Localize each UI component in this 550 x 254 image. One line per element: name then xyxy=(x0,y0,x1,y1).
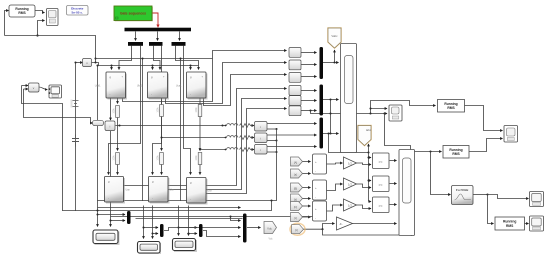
gate bar 3 xyxy=(172,42,186,46)
node j3 xyxy=(94,61,96,63)
svg-text:Iabc: Iabc xyxy=(366,128,372,132)
wire chain1 converter1 bottom to resistor xyxy=(117,98,119,104)
node j21 xyxy=(429,150,431,152)
wire gain2 to comp2 xyxy=(357,184,372,188)
wire from-tag pair2 into sum2 xyxy=(303,187,311,189)
mux B1 xyxy=(127,211,131,224)
svg-text:RMS: RMS xyxy=(452,152,460,156)
svg-text:Ubc1: Ubc1 xyxy=(137,85,143,88)
svg-text:[c]: [c] xyxy=(294,216,297,220)
wire mux Mc out to scope3 xyxy=(323,133,339,135)
wire CM3 neutral stub xyxy=(267,151,277,153)
svg-text:[b]: [b] xyxy=(294,197,297,201)
gate bar 1 xyxy=(128,42,143,46)
node j5 xyxy=(151,64,153,66)
svg-text:-K-: -K- xyxy=(339,222,343,226)
wire block V1 output run L2 xyxy=(92,63,199,66)
wire left source rail x75 xyxy=(75,63,77,212)
wire chain2 tap to RL branch 2 xyxy=(162,137,227,139)
wire RunningRMS2 out to scope5 xyxy=(465,106,503,131)
wire branch down to filter xyxy=(431,152,451,195)
wire CM2 neutral stub xyxy=(267,140,277,142)
wire junction to Scope1 input 2 xyxy=(38,21,45,36)
wire gate bus red feed xyxy=(152,13,158,26)
wire mid dc rail B xyxy=(142,59,144,202)
svg-text:[C]: [C] xyxy=(294,205,298,209)
wire chain1 resistor to I-block xyxy=(117,118,119,151)
mux Mb xyxy=(320,85,324,116)
mux Mc xyxy=(320,118,324,149)
scope THDscope (tall) xyxy=(399,150,415,236)
wire mux Mb out to scope3 xyxy=(323,99,339,101)
inductor L3 branch3 xyxy=(227,148,238,150)
wire mux b1 out to mux3 xyxy=(231,217,241,221)
wire chain1 mux feeds xyxy=(98,214,126,216)
mux B3 xyxy=(199,224,203,237)
node j4 xyxy=(110,64,112,66)
from tag F6 xyxy=(291,213,303,222)
svg-text:Ubn: Ubn xyxy=(170,189,175,192)
inductor L1 branch1 xyxy=(227,124,238,126)
sum block S1 xyxy=(313,154,327,174)
goto tag Vabc xyxy=(328,28,341,48)
wire RL2 to current measure 2 xyxy=(253,137,255,139)
wire filter branch to RunningRMS4 xyxy=(488,195,494,224)
node j7 xyxy=(96,64,98,66)
node j26 xyxy=(109,219,111,221)
resistor R3 chain3 xyxy=(196,105,202,117)
gain G4 (big) xyxy=(337,217,353,230)
svg-text:100k: 100k xyxy=(196,155,198,161)
node j6 xyxy=(189,64,191,66)
wire mux b3 out to mux3 xyxy=(203,231,241,237)
wire tap to goto Vabc xyxy=(334,50,336,63)
wire left loop rail to x62 xyxy=(22,86,63,212)
block Running RMS3 xyxy=(443,146,469,159)
svg-text:Uab1: Uab1 xyxy=(95,85,101,88)
wire bar1 long drop to converter4 xyxy=(109,46,141,175)
goto tag Iabc xyxy=(358,126,372,146)
battery BT3 xyxy=(173,239,198,253)
voltage measurement M4 xyxy=(289,86,301,96)
measurement block V2 left xyxy=(29,83,40,92)
gain G1 xyxy=(344,157,357,169)
block Running RMS2 xyxy=(438,100,465,113)
wire chain2 mux feeds xyxy=(144,227,159,229)
node j19 xyxy=(369,107,371,109)
current measurement CM1 xyxy=(255,122,268,132)
wire conv1 Vout nested run to meas1 xyxy=(123,51,287,102)
dc source element on rail x75 upper xyxy=(71,100,79,108)
wire bar2 to converter2 gate port xyxy=(154,46,161,70)
wire mid dc rail C xyxy=(180,59,182,202)
wire comp2 ref input xyxy=(369,180,372,182)
wire chain3 bottom drop B xyxy=(188,206,190,236)
svg-text:100k: 100k xyxy=(114,155,116,161)
wire chain3 resistor2 to converter6 xyxy=(199,165,201,175)
wire big gain to display scope xyxy=(353,223,397,225)
svg-text:-: - xyxy=(110,94,111,97)
goto tag Vdc xyxy=(264,222,277,241)
measurement block I1 chain1 xyxy=(105,121,115,131)
wire long Vdc run to scope4 area xyxy=(311,111,388,114)
wire left loop into V-block port2 xyxy=(24,88,29,90)
voltage measurement M1 xyxy=(289,48,301,58)
wire drop to converter3 top-left port xyxy=(190,66,192,70)
wire Running RMS1 output to Scope1 input 1 xyxy=(35,11,45,13)
wire chain2 converter2 bottom chain xyxy=(161,98,163,151)
relational operator RO2 xyxy=(373,176,390,192)
scope Scope2 xyxy=(49,85,62,98)
wire meas2 to mux Ma xyxy=(301,64,317,66)
wire comp1 to display mux xyxy=(390,160,397,162)
wire conv2 Vout nested run to meas2 xyxy=(166,63,287,104)
converter subsystem U4 xyxy=(105,177,126,204)
wire chain3 converter3 bottom chain xyxy=(199,98,201,151)
mux Ma xyxy=(320,47,324,79)
wire feedback loop into Running RMS1 xyxy=(5,11,9,36)
wire chain1 resistor2 to converter4 xyxy=(117,165,119,175)
from tag F2 xyxy=(291,169,303,178)
node j23 xyxy=(367,156,369,158)
wire chain1 I-block output long run to RL branch 1 xyxy=(116,125,223,127)
wire tap to goto Iabc xyxy=(329,134,369,153)
voltage measurement M6 xyxy=(289,106,301,116)
wire gate drop bar1 xyxy=(135,32,137,41)
mux M3 (3 input) xyxy=(243,214,247,243)
current measure element chain1 xyxy=(93,120,104,125)
svg-text:-: - xyxy=(108,198,109,201)
capacitor element on rail x75 lower xyxy=(72,135,79,147)
relational operator RO1 xyxy=(373,153,390,169)
inductor L2 branch2 xyxy=(227,136,238,138)
sum block S3 xyxy=(313,201,327,221)
wire up-and-over to RunningRMS2 xyxy=(371,101,436,114)
wire scope4 input1 xyxy=(371,108,388,110)
wire meas3 to mux Ma xyxy=(301,76,317,78)
wire L1 dc measure run xyxy=(96,58,213,60)
wire RL branch1 tail xyxy=(223,125,227,127)
converter subsystem U3 xyxy=(187,72,208,100)
svg-text:RMS: RMS xyxy=(447,106,455,110)
node j22 xyxy=(486,193,488,195)
wire bar3 long drop to converter6 xyxy=(184,46,191,175)
wire comp3 to display mux xyxy=(390,204,397,206)
mux B2 xyxy=(160,224,164,237)
wire chain3 tap to RL branch 3 xyxy=(200,149,227,151)
wire filter out junction xyxy=(473,194,488,196)
wire orange from-tag to big gain xyxy=(304,224,335,230)
svg-text:100k: 100k xyxy=(114,108,116,114)
wire bottom bus H4 xyxy=(111,208,317,217)
node j16 xyxy=(333,61,335,63)
wire chain3 bottom drop A xyxy=(178,206,180,236)
svg-text:>=: >= xyxy=(379,183,383,187)
wire mux3 out to goto tag xyxy=(247,227,261,229)
converter subsystem U1 xyxy=(106,72,127,100)
wire RL1 to current measure 1 xyxy=(253,125,255,127)
node j25 xyxy=(96,213,98,215)
filter block Fo=50Hz xyxy=(452,186,474,205)
wire CM1 signal out to mux Mc xyxy=(267,123,317,125)
svg-text:5e-05 s.: 5e-05 s. xyxy=(72,10,83,14)
wire bar3 to converter3 gate port xyxy=(176,46,199,70)
gain G3 xyxy=(344,199,357,211)
resistor RL2 zigzag xyxy=(240,136,253,140)
wire comp1 ref input xyxy=(369,157,372,159)
svg-text:-: - xyxy=(315,195,316,199)
wire meas6 to mux Mb xyxy=(301,110,317,112)
svg-text:-: - xyxy=(152,198,153,201)
battery BT1 xyxy=(93,230,120,245)
svg-text:-: - xyxy=(315,169,316,173)
svg-text:[B]: [B] xyxy=(294,186,297,190)
wire conv4 Vout nested run to meas4 xyxy=(123,89,287,186)
node rl dots xyxy=(225,125,227,127)
resistor R1 chain1 xyxy=(114,106,120,118)
svg-text:-: - xyxy=(315,216,316,220)
wire bottom bus H2 xyxy=(98,207,241,209)
wire chain1 I-block down to resistor2 xyxy=(110,98,112,120)
svg-text:RMS: RMS xyxy=(506,224,514,228)
powergui block Discrete 5e-05 s xyxy=(67,6,89,16)
wire filter to scope6 xyxy=(488,195,529,199)
wire left loop lower run xyxy=(24,89,93,123)
current measurement CM3 xyxy=(255,145,268,155)
svg-text:-: - xyxy=(190,94,191,97)
converter subsystem U2 xyxy=(148,72,170,100)
wire bottom bus H1 xyxy=(98,129,277,201)
wire comp3 ref input xyxy=(369,201,372,203)
svg-text:Ucn: Ucn xyxy=(208,190,213,193)
wire gate drop bar3 xyxy=(179,32,181,41)
svg-text:[A]: [A] xyxy=(294,160,297,164)
gate bar 2 xyxy=(149,42,163,46)
svg-text:RMS: RMS xyxy=(18,11,26,15)
from tag F7 (highlighted) xyxy=(290,223,305,235)
current measurement CM2 xyxy=(255,133,268,143)
svg-text:1/2: 1/2 xyxy=(348,204,352,208)
wire bottom bus H3 xyxy=(63,201,272,211)
wire mux b2 out to mux3 xyxy=(164,228,241,231)
wire CM2 signal out to mux Mc xyxy=(267,134,317,136)
wire meas4 to mux Mb xyxy=(301,90,317,92)
resistor RL1 zigzag xyxy=(240,124,253,128)
scope Scope4 xyxy=(389,105,402,121)
wire gain1 to comp1 xyxy=(357,163,372,165)
svg-text:Gate sequences: Gate sequences xyxy=(120,12,146,16)
wire reference rail to comparators xyxy=(368,153,370,202)
measurement block V1 xyxy=(83,59,92,67)
svg-text:+: + xyxy=(315,186,317,190)
wire CM3 signal out to mux Mc xyxy=(267,146,317,148)
wire RunningRMS3 out to scope5 input2 xyxy=(469,139,503,152)
voltage measurement M5 xyxy=(289,96,301,106)
node j9 xyxy=(179,57,181,59)
voltage measurement M3 xyxy=(289,73,301,83)
wire RunningRMS4 out to scope7 xyxy=(525,223,529,225)
scope Scope7 xyxy=(530,216,544,231)
wire RL3 to current measure 3 xyxy=(253,149,255,151)
wire bar2 long drop to converter5 xyxy=(153,46,162,175)
wire left loop into V-block port1 xyxy=(22,85,29,87)
wire long feedback bottom run xyxy=(5,36,96,63)
converter subsystem U6 xyxy=(187,178,208,205)
resistor RL3 zigzag xyxy=(240,148,253,152)
wire sum1 to gain1 xyxy=(327,163,343,164)
svg-text:100k: 100k xyxy=(158,155,160,161)
wire conv3 Vout nested run to meas3 xyxy=(204,75,287,106)
from tag F3 xyxy=(291,183,303,192)
wire conv6 Vout nested run to meas6 xyxy=(206,109,287,194)
node j8 xyxy=(141,57,143,59)
svg-text:100k: 100k xyxy=(196,107,198,113)
node j28 xyxy=(151,232,153,234)
node j29 xyxy=(177,226,179,228)
wire CM1 neutral stub xyxy=(267,128,277,130)
wire chain2 resistor2 to converter5 xyxy=(161,165,163,175)
bus bar gate distribution xyxy=(125,28,192,32)
svg-text:>=: >= xyxy=(379,204,383,208)
resistor R6 chain3 lower xyxy=(196,153,202,165)
wire from-tag pair3 into sum3 xyxy=(303,205,311,207)
wire chain2 bottom drop A xyxy=(143,206,145,239)
scope Vscope (tall) xyxy=(341,44,357,153)
wire meas1 to mux Ma xyxy=(301,52,317,54)
resistor R4 chain1 lower xyxy=(114,153,120,165)
svg-text:+: + xyxy=(315,207,317,211)
scope Scope1 xyxy=(47,9,59,26)
node j15 xyxy=(199,148,201,150)
voltage measurement M2 xyxy=(289,60,301,70)
resistor R5 chain2 lower xyxy=(158,153,164,165)
wire left dc rail A xyxy=(97,66,99,202)
subsystem Gate sequences (green) xyxy=(114,6,153,21)
svg-text:Uan: Uan xyxy=(126,189,131,192)
scope Scope5 xyxy=(504,126,518,143)
converter subsystem U5 xyxy=(149,177,170,204)
node j18 xyxy=(369,112,371,114)
from tag F1 xyxy=(291,157,303,166)
from tag F4 xyxy=(291,194,303,203)
svg-text:100k: 100k xyxy=(158,107,160,113)
from tag F5 xyxy=(291,202,303,211)
wire comp2 to display mux xyxy=(390,183,397,185)
wire chain3 mux feeds xyxy=(179,227,198,229)
wire from-tag pair1 into sum1 xyxy=(303,161,311,163)
gain G2 xyxy=(344,178,357,190)
wire sum3 to gain3 xyxy=(327,205,343,211)
wire gate drop bar2 xyxy=(157,32,159,41)
wire mux Ma out to scope3 xyxy=(323,62,339,64)
svg-text:-: - xyxy=(151,94,152,97)
node j1 xyxy=(36,34,38,36)
wire long run to RunningRMS3 xyxy=(385,114,442,152)
wire meas5 to mux Mb xyxy=(301,100,317,102)
wire bar1 to converter1 gate port xyxy=(119,46,132,70)
svg-text:[a]: [a] xyxy=(294,172,297,176)
node j30 xyxy=(187,232,189,234)
node j13 xyxy=(221,124,223,126)
wire conv5 Vout nested run to meas5 xyxy=(168,99,287,190)
wire V-block to left source tap xyxy=(76,62,83,64)
svg-text:1/2: 1/2 xyxy=(348,183,352,187)
svg-text:>=: >= xyxy=(379,160,383,164)
battery BT2 xyxy=(138,242,162,254)
svg-text:[n]: [n] xyxy=(295,228,298,232)
wire gain3 to comp3 xyxy=(357,205,372,209)
node j17 xyxy=(327,132,329,134)
wire chain1 bottom drop A xyxy=(97,201,99,227)
svg-text:Uca1: Uca1 xyxy=(176,85,182,88)
svg-text:Vabc: Vabc xyxy=(331,34,338,38)
relational operator RO3 xyxy=(373,197,390,213)
wire measure V2 out to Scope2 xyxy=(39,87,47,90)
wire chain2 bottom drop B xyxy=(152,206,154,239)
node j14 xyxy=(160,136,162,138)
node j2 xyxy=(94,57,96,59)
sum block S2 xyxy=(313,180,327,200)
wire drop to converter2 top-left port xyxy=(152,66,154,70)
svg-text:1/2: 1/2 xyxy=(348,162,352,166)
block Running RMS1 xyxy=(9,5,35,17)
node j11 xyxy=(74,61,76,63)
svg-text:+: + xyxy=(315,160,317,164)
node j12 xyxy=(118,124,120,126)
block Running RMS4 xyxy=(495,217,525,230)
svg-text:Fo=50Hz: Fo=50Hz xyxy=(456,188,469,192)
resistor R2 chain2 xyxy=(158,105,164,117)
node j27 xyxy=(142,226,144,228)
node j24 xyxy=(367,179,369,181)
wire sum2 to gain2 xyxy=(327,184,343,191)
wire drop to converter1 top-left port xyxy=(111,66,113,70)
scope Scope6 xyxy=(530,192,544,207)
svg-text:Vdc: Vdc xyxy=(267,226,272,230)
svg-text:-: - xyxy=(190,199,191,202)
